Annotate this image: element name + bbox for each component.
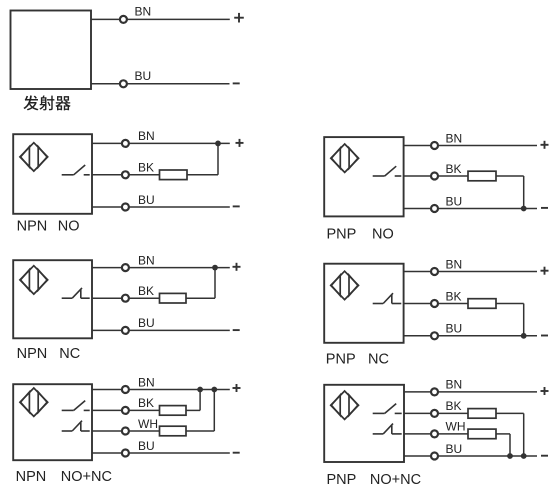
terminal WH (PNP NO+NC) bbox=[431, 430, 438, 437]
photoelectric sensor symbol (NPN NO+NC) bbox=[20, 388, 48, 416]
wire BK to junction (NPN NC) bbox=[186, 297, 215, 299]
terminal BN (NPN NC) bbox=[122, 264, 129, 271]
sensor box PNP NO+NC bbox=[324, 385, 404, 462]
wire BU (PNP NO) bbox=[404, 208, 537, 210]
svg-text:BN: BN bbox=[138, 129, 155, 143]
svg-text:NPN: NPN bbox=[17, 346, 48, 362]
svg-text:BN: BN bbox=[138, 375, 155, 389]
wire BN (transmitter) bbox=[91, 18, 230, 20]
- supply (PNP NO) bbox=[541, 207, 548, 209]
wire BK to junction 2 (PNP NO+NC) bbox=[496, 412, 524, 414]
wire BU (PNP NO+NC) bbox=[404, 455, 537, 457]
resistor load BK (PNP NO+NC) bbox=[468, 409, 496, 419]
svg-text:BN: BN bbox=[138, 253, 155, 267]
+ supply (PNP NC) bbox=[541, 267, 549, 275]
terminal BU (PNP NO+NC) bbox=[431, 453, 438, 460]
- supply (transmitter) bbox=[233, 82, 240, 84]
svg-text:BK: BK bbox=[138, 161, 154, 175]
junction on BU (PNP NO) bbox=[521, 206, 527, 212]
svg-text:NO+NC: NO+NC bbox=[370, 472, 421, 488]
wire BU (NPN NO) bbox=[92, 206, 230, 208]
junction 2 on BN (NPN NO+NC) bbox=[211, 387, 217, 393]
photoelectric sensor symbol (PNP NC) bbox=[331, 271, 359, 299]
- supply (NPN NO+NC) bbox=[233, 452, 240, 454]
svg-text:BU: BU bbox=[446, 194, 463, 208]
svg-text:BU: BU bbox=[446, 442, 463, 456]
terminal BN (NPN NO) bbox=[122, 140, 129, 147]
svg-text:BU: BU bbox=[446, 322, 463, 336]
svg-text:BN: BN bbox=[135, 4, 152, 18]
svg-text:BK: BK bbox=[138, 284, 154, 298]
wire BK (PNP NC) bbox=[404, 303, 468, 305]
svg-text:NO+NC: NO+NC bbox=[61, 469, 112, 485]
wire BK to junction (NPN NO) bbox=[187, 174, 218, 176]
terminal BN (PNP NO+NC) bbox=[431, 388, 438, 395]
transmitter box 发射器 bbox=[11, 11, 92, 90]
+ supply (NPN NO+NC) bbox=[233, 384, 241, 392]
junction on BN (NPN NO) bbox=[215, 141, 221, 147]
terminal BN (transmitter) bbox=[120, 16, 127, 23]
+ supply (PNP NO+NC) bbox=[541, 387, 549, 395]
svg-text:BU: BU bbox=[138, 439, 155, 453]
wire BK (NPN NO+NC) bbox=[92, 409, 160, 411]
+ supply (transmitter) bbox=[234, 13, 244, 23]
+ supply (NPN NC) bbox=[233, 263, 241, 271]
svg-text:NC: NC bbox=[368, 351, 389, 367]
terminal BU (NPN NO) bbox=[122, 204, 129, 211]
wire BU (PNP NC) bbox=[404, 335, 537, 337]
svg-text:NO: NO bbox=[58, 218, 80, 234]
resistor load WH (PNP NO+NC) bbox=[468, 429, 496, 439]
NO contact switch (NPN NO) bbox=[62, 165, 90, 175]
svg-text:BN: BN bbox=[446, 257, 463, 271]
svg-text:BK: BK bbox=[446, 162, 462, 176]
terminal BK (NPN NO+NC) bbox=[122, 407, 129, 414]
NC contact switch (NPN NC) bbox=[62, 288, 90, 298]
terminal BK (NPN NC) bbox=[122, 295, 129, 302]
wire BK to junction (PNP NO) bbox=[496, 175, 524, 177]
wire BN (NPN NC) bbox=[92, 267, 230, 269]
wire BK to junction 1 (NPN NO+NC) bbox=[186, 409, 200, 411]
terminal WH (NPN NO+NC) bbox=[122, 428, 129, 435]
wire BK (PNP NO+NC) bbox=[404, 412, 468, 414]
terminal BU (NPN NO+NC) bbox=[122, 450, 129, 457]
terminal BK (PNP NC) bbox=[431, 300, 438, 307]
svg-text:BK: BK bbox=[446, 399, 462, 413]
svg-text:BK: BK bbox=[446, 289, 462, 303]
wire BK to junction (PNP NC) bbox=[496, 303, 524, 305]
sensor box NPN NC bbox=[13, 260, 92, 338]
wire BU (NPN NC) bbox=[92, 329, 230, 331]
NC contact switch (PNP NO+NC) bbox=[373, 424, 402, 434]
NO contact switch (PNP NO) bbox=[373, 166, 402, 176]
wire WH (NPN NO+NC) bbox=[92, 430, 160, 432]
junction 1 on BN (NPN NO+NC) bbox=[197, 387, 203, 393]
sensor box PNP NC bbox=[324, 264, 403, 343]
wire BK (NPN NC) bbox=[92, 297, 160, 299]
svg-text:BU: BU bbox=[135, 69, 152, 83]
label 发射器 (transmitter) bbox=[23, 95, 38, 110]
resistor load WH (NPN NO+NC) bbox=[160, 426, 187, 436]
wire BN (PNP NC) bbox=[404, 271, 537, 273]
wire WH to junction 2 (NPN NO+NC) bbox=[186, 430, 214, 432]
wire BU (transmitter) bbox=[91, 83, 230, 85]
photoelectric sensor symbol (NPN NC) bbox=[20, 266, 48, 294]
svg-text:BK: BK bbox=[138, 396, 154, 410]
photoelectric sensor symbol (PNP NO+NC) bbox=[331, 391, 359, 419]
terminal BN (PNP NC) bbox=[431, 268, 438, 275]
svg-text:BU: BU bbox=[138, 193, 155, 207]
wire BK (PNP NO) bbox=[404, 175, 468, 177]
- supply (PNP NO+NC) bbox=[541, 455, 548, 457]
svg-text:NC: NC bbox=[59, 346, 80, 362]
wire WH (PNP NO+NC) bbox=[404, 433, 468, 435]
NC contact switch (NPN NO+NC) bbox=[62, 421, 90, 431]
terminal BK (PNP NO+NC) bbox=[431, 410, 438, 417]
sensor box NPN NO bbox=[13, 134, 92, 214]
NO contact switch (NPN NO+NC) bbox=[62, 401, 90, 411]
terminal BK (NPN NO) bbox=[122, 171, 129, 178]
terminal BK (PNP NO) bbox=[431, 173, 438, 180]
sensor box NPN NO+NC bbox=[13, 384, 92, 460]
svg-text:BU: BU bbox=[138, 316, 155, 330]
terminal BU (NPN NC) bbox=[122, 327, 129, 334]
junction on BU (PNP NC) bbox=[521, 333, 527, 339]
photoelectric sensor symbol (NPN NO) bbox=[20, 143, 48, 171]
- supply (PNP NC) bbox=[541, 335, 548, 337]
NO contact switch (PNP NO+NC) bbox=[373, 404, 402, 414]
resistor load (PNP NC) bbox=[468, 299, 496, 309]
junction 1 on BU (PNP NO+NC) bbox=[507, 453, 513, 459]
terminal BN (PNP NO) bbox=[431, 142, 438, 149]
wire BN (PNP NO) bbox=[404, 145, 537, 147]
+ supply (PNP NO) bbox=[541, 141, 549, 149]
resistor load (NPN NO) bbox=[160, 170, 188, 180]
svg-text:NPN: NPN bbox=[16, 469, 47, 485]
terminal BU (PNP NC) bbox=[431, 332, 438, 339]
wire BN (PNP NO+NC) bbox=[404, 391, 537, 393]
wire BU (NPN NO+NC) bbox=[92, 452, 230, 454]
svg-text:NPN: NPN bbox=[17, 218, 48, 234]
wire BK (NPN NO) bbox=[92, 174, 160, 176]
svg-text:PNP: PNP bbox=[327, 227, 357, 243]
wire BN (NPN NO) bbox=[92, 142, 230, 144]
resistor load (PNP NO) bbox=[468, 171, 496, 181]
wire WH to junction 1 (PNP NO+NC) bbox=[496, 433, 510, 435]
junction on BN (NPN NC) bbox=[212, 265, 218, 271]
svg-text:PNP: PNP bbox=[327, 472, 357, 488]
sensor box PNP NO bbox=[324, 137, 403, 216]
svg-text:BN: BN bbox=[446, 378, 463, 392]
NC contact switch (PNP NC) bbox=[373, 293, 402, 303]
resistor load (NPN NC) bbox=[160, 293, 187, 303]
- supply (NPN NO) bbox=[233, 205, 240, 207]
terminal BN (NPN NO+NC) bbox=[122, 386, 129, 393]
terminal BU (transmitter) bbox=[120, 80, 127, 87]
svg-text:BN: BN bbox=[446, 131, 463, 145]
svg-text:NO: NO bbox=[372, 227, 394, 243]
svg-text:WH: WH bbox=[138, 417, 158, 431]
junction 2 on BU (PNP NO+NC) bbox=[521, 453, 527, 459]
photoelectric sensor symbol (PNP NO) bbox=[331, 144, 359, 172]
+ supply (NPN NO) bbox=[236, 139, 244, 147]
- supply (NPN NC) bbox=[233, 329, 240, 331]
svg-text:WH: WH bbox=[446, 420, 466, 434]
terminal BU (PNP NO) bbox=[431, 205, 438, 212]
resistor load BK (NPN NO+NC) bbox=[160, 406, 187, 416]
svg-text:PNP: PNP bbox=[326, 351, 356, 367]
wire BN (NPN NO+NC) bbox=[92, 389, 230, 391]
